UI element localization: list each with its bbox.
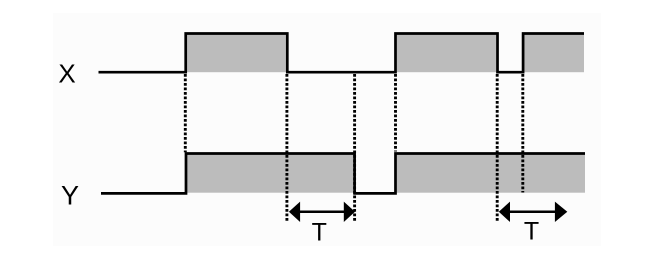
svg-text:Y: Y <box>61 180 79 210</box>
X pulse 3 fill <box>522 34 584 73</box>
right T arrow right head <box>555 202 567 222</box>
right T arrow shaft <box>507 211 556 214</box>
svg-text:X: X <box>58 58 75 88</box>
right T arrow left head <box>499 202 510 222</box>
dotted line at X rise 2 <box>394 74 397 152</box>
svg-text:T: T <box>524 218 539 246</box>
signal X waveform <box>99 34 585 73</box>
svg-text:T: T <box>312 219 327 247</box>
Y pulse 2 fill <box>394 154 585 193</box>
dotted line at X fall 2 <box>496 74 499 222</box>
left T arrow shaft <box>297 211 346 214</box>
X pulse 1 fill <box>185 34 289 73</box>
left T arrow left head <box>289 202 300 222</box>
Y pulse 1 fill <box>185 154 356 193</box>
left T arrow right head <box>344 202 355 222</box>
signal Y waveform <box>101 154 585 194</box>
dotted line at X fall 1 <box>285 74 288 222</box>
dotted line at X rise 1 <box>184 74 187 152</box>
dotted line at X rise 3 <box>521 74 524 193</box>
panel <box>53 13 601 246</box>
X pulse 2 fill <box>394 34 498 73</box>
dotted line at Y fall 1 <box>353 74 356 222</box>
